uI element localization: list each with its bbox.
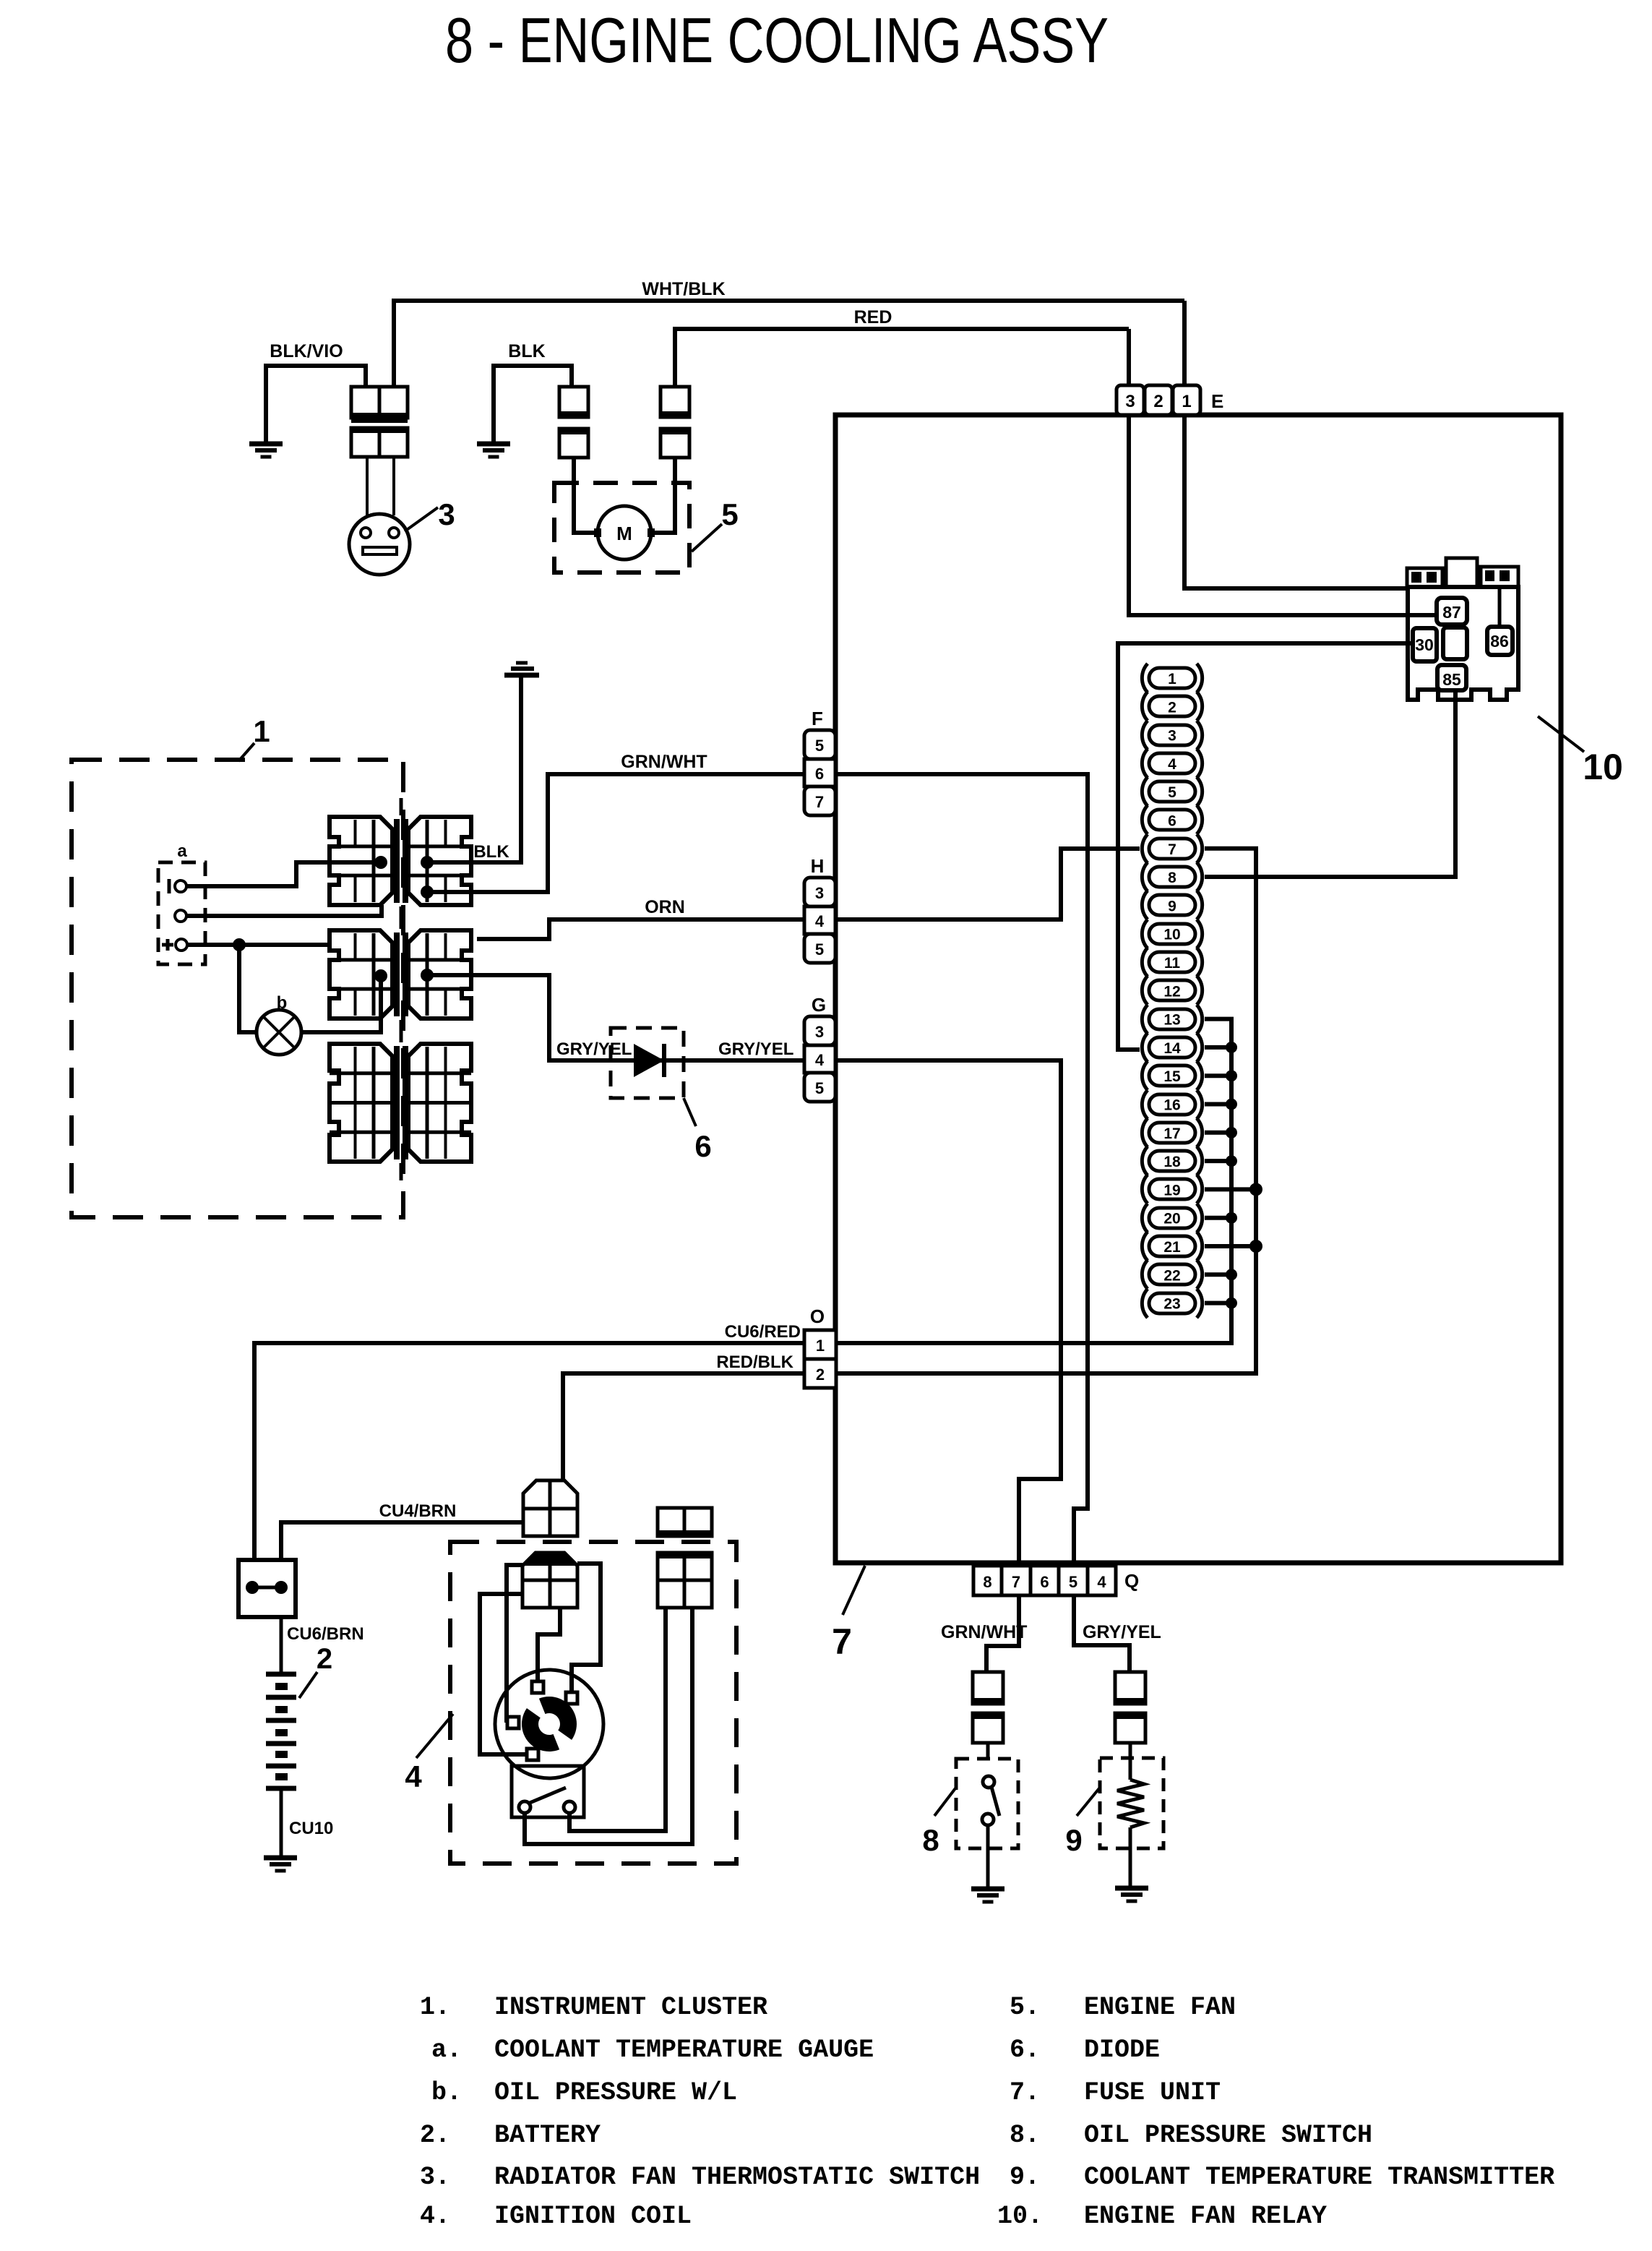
fuse 19 [1142,1175,1202,1204]
svg-text:G: G [812,994,826,1016]
svg-text:COOLANT TEMPERATURE TRANSMITTE: COOLANT TEMPERATURE TRANSMITTER [1084,2163,1554,2192]
svg-text:18: 18 [1163,1154,1181,1170]
svg-text:RED: RED [854,307,892,327]
svg-text:OIL PRESSURE SWITCH: OIL PRESSURE SWITCH [1084,2121,1372,2150]
svg-text:IGNITION COIL: IGNITION COIL [494,2202,692,2231]
svg-text:GRY/YEL: GRY/YEL [718,1039,793,1059]
stub fuse 18 [1205,1159,1231,1163]
svg-text:7: 7 [815,793,824,811]
relay top tabs [1407,568,1442,587]
svg-text:22: 22 [1163,1267,1180,1284]
relay coil [1443,627,1467,659]
svg-text:6: 6 [1040,1573,1049,1591]
oil pressure switch 8 dashed box [956,1759,1018,1848]
svg-text:3: 3 [815,884,824,902]
wire E3 vertical down to relay 87 [1129,329,1435,615]
svg-text:DIODE: DIODE [1084,2036,1160,2065]
svg-text:7.: 7. [1010,2078,1040,2107]
wire transmitter to ground [1129,1827,1132,1887]
cluster connector pair 3 right [408,1044,471,1162]
svg-text:FUSE UNIT: FUSE UNIT [1084,2078,1221,2107]
svg-text:H: H [811,855,825,877]
pin pair1 right top (BLK) [421,856,434,869]
wire ORN from instrument cluster to H4 [477,919,804,939]
svg-text:86: 86 [1490,632,1509,651]
diode 6 symbol [634,1044,664,1077]
pin pair2 left (lamp) [374,969,387,982]
ground (BLK engine fan) [477,442,510,447]
svg-text:5: 5 [1168,784,1176,801]
svg-text:GRN/WHT: GRN/WHT [621,752,707,772]
svg-text:ENGINE FAN: ENGINE FAN [1084,1993,1236,2022]
cluster connector mating line [400,798,403,815]
distributor terminal bottom [527,1749,538,1760]
wire gauge terminal 1 to connector pin [186,862,375,886]
svg-text:INSTRUMENT CLUSTER: INSTRUMENT CLUSTER [494,1993,767,2022]
svg-text:8: 8 [1168,870,1176,886]
battery 2 [266,1672,296,1677]
wire H4 to fuse 7 [835,849,1140,919]
svg-text:6: 6 [1168,813,1176,830]
fuse 14 [1142,1033,1202,1062]
svg-text:16: 16 [1163,1097,1180,1114]
cluster connector pair 3 left [330,1044,392,1162]
label 10 with pointer [1538,716,1584,752]
svg-text:ORN: ORN [645,897,685,917]
engine fan 5 dashed box [554,483,689,573]
relay terminal 85 [1437,665,1466,690]
svg-text:2: 2 [1153,392,1163,411]
wire RED/BLK ignition coil to O2 [563,1373,804,1480]
svg-text:5: 5 [1069,1573,1077,1591]
label 5 with pointer [692,524,722,552]
wire CU6/RED battery junction to O1 [254,1343,804,1560]
svg-text:CU6/RED: CU6/RED [725,1322,801,1342]
svg-text:RED/BLK: RED/BLK [716,1352,793,1372]
coil connector upper block [523,1480,577,1536]
svg-text:Q: Q [1124,1570,1139,1592]
relay internal wire to 86 [1498,587,1502,627]
svg-text:E: E [1211,390,1223,412]
engine fan relay 10 body [1408,587,1518,700]
relay terminal 87 [1437,598,1467,625]
connector G [804,1016,835,1045]
svg-text:b: b [277,993,288,1013]
svg-text:3: 3 [815,1023,824,1041]
connector H [804,878,835,906]
svg-text:1: 1 [1168,671,1176,687]
gauge terminal + [176,939,187,951]
svg-text:12: 12 [1163,983,1180,1000]
wire to switch box [986,1743,990,1759]
fuse unit 7 outline [835,415,1561,1563]
svg-text:BATTERY: BATTERY [494,2121,601,2150]
cluster connector pair 1 right [408,817,471,905]
svg-text:RADIATOR FAN THERMOSTATIC SWIT: RADIATOR FAN THERMOSTATIC SWITCH [494,2163,980,2192]
svg-text:OIL PRESSURE W/L: OIL PRESSURE W/L [494,2078,737,2107]
wire fuse 7 to vertical bus (to O2) [836,849,1256,1373]
svg-text:85: 85 [1442,670,1461,689]
svg-text:87: 87 [1442,603,1461,622]
stub fuse 14 [1205,1045,1231,1050]
coil right connector lower block [658,1553,712,1608]
svg-text:5: 5 [815,737,824,755]
svg-text:2.: 2. [420,2121,450,2150]
inverted ground (cluster BLK) [504,673,539,678]
fuse 9 [1142,891,1202,919]
oil pressure switch connector [973,1672,1003,1704]
fuse 23 [1142,1289,1202,1318]
battery junction box [238,1560,296,1617]
fuse 6 [1142,805,1202,834]
svg-text:14: 14 [1163,1040,1181,1057]
oil pressure warning lamp b [257,1010,301,1055]
stub fuse 20 [1205,1216,1231,1220]
coil right connector upper block [658,1508,712,1536]
fuse 3 [1142,721,1202,750]
pin pair1 left [374,856,387,869]
svg-text:4: 4 [815,1051,825,1069]
wire right contact to right connector [569,1608,666,1831]
fuse 2 [1142,692,1202,721]
cluster connector pair 2 left [330,930,392,1019]
svg-text:4: 4 [1097,1573,1106,1591]
svg-text:COOLANT TEMPERATURE GAUGE: COOLANT TEMPERATURE GAUGE [494,2036,874,2065]
coil internal wire center [538,1608,560,1683]
breaker points box [512,1766,584,1817]
relay terminal 86 [1487,627,1513,655]
wire gauge terminal 2 to connector [186,905,382,916]
svg-text:1: 1 [253,714,270,748]
fuse 18 [1142,1146,1202,1175]
wire E1 vertical down to relay top [1184,301,1408,588]
svg-text:9: 9 [1065,1823,1082,1857]
svg-text:10: 10 [1163,927,1180,943]
coil internal wire right [572,1564,601,1693]
svg-text:CU6/BRN: CU6/BRN [287,1624,364,1644]
ground (oil pressure switch) [971,1887,1004,1892]
svg-text:9.: 9. [1010,2163,1040,2192]
stub fuse 19 [1205,1187,1256,1191]
wire RED (engine fan to E3) [675,329,1129,387]
fuse 11 [1142,948,1202,977]
svg-text:8 - ENGINE COOLING ASSY: 8 - ENGINE COOLING ASSY [445,4,1109,76]
engine fan leads [574,458,598,533]
fuse 17 [1142,1118,1202,1147]
svg-text:GRN/WHT: GRN/WHT [941,1622,1027,1642]
fuse unit 7 pointer and label [843,1566,865,1615]
svg-text:11: 11 [1164,955,1181,972]
engine fan left connector [559,387,588,417]
wire battery to ground CU10 [280,1788,283,1856]
stub fuse 21 [1205,1244,1256,1248]
label 3 with pointer [405,507,438,531]
svg-text:10.: 10. [997,2202,1043,2231]
svg-text:2: 2 [816,1365,825,1384]
wire BLK cluster to ground [432,677,521,862]
svg-text:3: 3 [438,497,455,531]
svg-text:4: 4 [815,912,825,930]
wire relay 30 to fuse 14 [1118,643,1413,1050]
label 2 with pointer [299,1672,317,1698]
wire junction to CU4/BRN [281,1522,523,1560]
wire F6 to Q5 [835,774,1088,1566]
svg-text:8.: 8. [1010,2121,1040,2150]
wire fuse 13 to vertical bus (to O1) [836,1019,1231,1343]
svg-text:CU10: CU10 [289,1819,333,1838]
wire GRN/WHT from instrument cluster to F6 [432,774,804,892]
pin pair1 right bottom (GRN/WHT) [421,886,434,899]
svg-text:WHT/BLK: WHT/BLK [642,279,725,299]
connector O [804,1330,836,1359]
wire left contact to right connector [525,1608,692,1844]
coolant temperature gauge a dashed box [158,862,205,964]
gauge terminal 2 [175,910,186,922]
svg-text:7: 7 [1012,1573,1020,1591]
svg-text:9: 9 [1168,898,1176,914]
wire G4 to Q7 [835,1060,1061,1566]
svg-text:b.: b. [431,2078,462,2107]
coolant temperature transmitter 9 dashed box [1100,1758,1163,1848]
relay terminal 30 [1413,628,1437,661]
ground (battery) [264,1856,297,1861]
svg-text:13: 13 [1163,1012,1180,1029]
stub fuse 22 [1205,1272,1231,1277]
svg-text:3: 3 [1125,392,1135,411]
svg-text:17: 17 [1163,1125,1180,1142]
fuse 1 [1142,664,1202,693]
switch contacts [983,1776,994,1788]
fuse 20 [1142,1204,1202,1232]
wire Q5 to coolant temperature transmitter connector [1074,1595,1130,1672]
diode 6 dashed box [611,1028,684,1098]
svg-text:3: 3 [1168,728,1176,745]
instrument cluster 1 dashed box [72,760,403,1217]
svg-text:1.: 1. [420,1993,450,2022]
svg-text:2: 2 [1168,699,1176,716]
label 8 with pointer [934,1788,955,1816]
wire WHT/BLK (thermostatic switch to E1) [394,301,1184,387]
fuse 13 [1142,1005,1202,1034]
svg-text:2: 2 [317,1643,332,1675]
wire to transmitter box [1129,1743,1132,1780]
fuse 8 [1142,862,1202,891]
fuse 7 [1142,834,1202,863]
svg-text:20: 20 [1163,1211,1180,1227]
distributor terminal top [532,1681,543,1693]
svg-text:19: 19 [1163,1182,1180,1199]
wire switch to ground [986,1825,990,1887]
wire junction to battery [280,1617,283,1674]
svg-text:23: 23 [1163,1296,1180,1313]
transmitter resistor [1117,1780,1144,1827]
wire Q7 to oil pressure switch connector [986,1595,1019,1672]
svg-text:1: 1 [816,1337,825,1355]
coil internal wire left (bottom cell) [480,1594,527,1754]
svg-text:4: 4 [405,1759,422,1793]
wire GRY/YEL from instrument cluster through diode 6 to G4 [432,975,804,1060]
stub fuse 16 [1205,1102,1231,1107]
svg-text:8: 8 [983,1573,991,1591]
connector E [1117,385,1144,415]
ground (BLK/VIO) [249,442,283,447]
breaker contacts [519,1801,530,1813]
svg-text:6.: 6. [1010,2036,1040,2065]
coolant temperature transmitter connector [1115,1672,1145,1704]
fuse 5 [1142,777,1202,806]
svg-text:15: 15 [1163,1068,1181,1085]
svg-text:5: 5 [815,1079,824,1097]
svg-text:BLK/VIO: BLK/VIO [270,341,343,361]
svg-text:21: 21 [1163,1239,1181,1256]
label 4 with pointer [416,1714,453,1758]
svg-text:5: 5 [721,497,738,531]
coil connector lower block [522,1553,577,1608]
svg-text:7: 7 [1168,841,1176,858]
svg-text:30: 30 [1415,635,1434,654]
svg-text:O: O [810,1305,825,1327]
svg-text:BLK: BLK [473,842,509,862]
wire BLK/VIO (ground to thermostatic switch) [266,366,366,442]
fuse 21 [1142,1232,1202,1261]
pin pair2 right (GRY/YEL) [421,969,434,982]
svg-text:6: 6 [694,1129,711,1163]
distributor body [495,1670,603,1778]
wire gauge + to connector, with branch to lamp b [187,943,328,947]
engine fan motor M [598,506,651,559]
svg-text:a: a [177,841,187,861]
radiator fan thermostatic switch 3 [349,514,410,575]
connector Q [973,1566,1002,1595]
svg-text:6: 6 [815,765,824,783]
svg-text:F: F [812,708,823,729]
svg-text:5.: 5. [1010,1993,1040,2022]
stub fuse 23 [1205,1301,1231,1305]
svg-text:M: M [616,523,632,544]
connector F [804,730,835,759]
label 1 with pointer [238,743,254,761]
coil internal wire left (top cell) [507,1565,522,1723]
fuse 16 [1142,1090,1202,1119]
svg-text:GRY/YEL: GRY/YEL [556,1039,632,1059]
engine fan right connector [661,387,689,417]
distributor terminal left [507,1717,519,1728]
fuse 4 [1142,749,1202,778]
svg-text:CU4/BRN: CU4/BRN [379,1501,457,1521]
cluster connector pair 1 left [330,817,392,905]
svg-text:8: 8 [922,1823,939,1857]
svg-text:3.: 3. [420,2163,450,2192]
fuse 15 [1142,1061,1202,1090]
connector of thermostatic switch 3 [351,387,408,418]
wire lamp b to connector pin [301,981,381,1032]
stub fuse 15 [1205,1073,1231,1078]
leads to thermostatic switch 3 [366,457,369,515]
svg-text:BLK: BLK [508,341,545,361]
label 9 with pointer [1077,1788,1099,1816]
svg-text:5: 5 [815,940,824,959]
ignition coil 4 dashed box [450,1542,736,1864]
svg-text:1: 1 [1182,392,1191,411]
fuse 22 [1142,1260,1202,1289]
ground (transmitter) [1115,1886,1148,1891]
svg-text:a.: a. [431,2036,462,2065]
fuse 10 [1142,919,1202,948]
svg-text:7: 7 [832,1621,852,1662]
wire BLK (ground to engine fan) [494,366,572,442]
label 6 with pointer [684,1098,696,1126]
distributor terminal upper right [566,1692,577,1704]
stub fuse 17 [1205,1131,1231,1135]
cluster connector pair 2 right [408,930,471,1019]
svg-text:GRY/YEL: GRY/YEL [1083,1622,1161,1642]
svg-text:4: 4 [1168,756,1176,773]
fuse 12 [1142,976,1202,1005]
svg-text:ENGINE FAN RELAY: ENGINE FAN RELAY [1084,2202,1327,2231]
svg-text:4.: 4. [420,2202,450,2231]
gauge terminal 1 [175,880,186,892]
svg-text:10: 10 [1583,747,1623,787]
wire relay 85 to fuse 8 [1205,690,1455,877]
